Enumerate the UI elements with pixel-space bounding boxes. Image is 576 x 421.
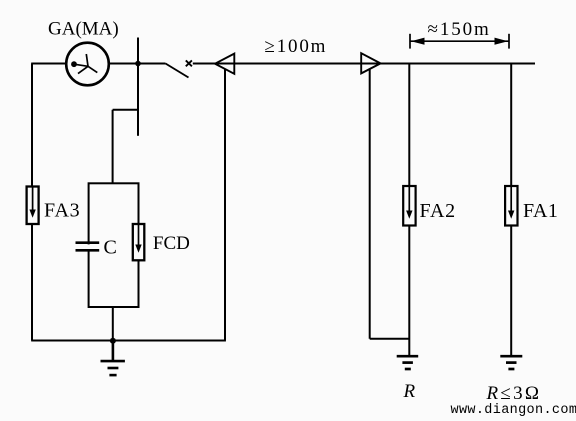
wire horizontal to FA2 ground node xyxy=(370,338,410,340)
svg-text:FCD: FCD xyxy=(153,233,190,254)
wire vertical drop under right arrow xyxy=(369,69,371,339)
svg-text:www.diangon.com: www.diangon.com xyxy=(451,403,576,418)
meter GA(MA) circle U1 xyxy=(66,43,109,86)
wire meter to junction xyxy=(109,63,138,65)
arrow marker left-pointing (feeder direction) xyxy=(215,54,234,74)
switch S1 fixed lead xyxy=(138,63,166,65)
svg-text:FA3: FA3 xyxy=(44,200,80,222)
wire left vertical bus xyxy=(31,64,33,341)
meter internal pointer lines xyxy=(74,54,97,74)
svg-text:C: C xyxy=(104,237,117,259)
switch S1 cross mark xyxy=(186,60,192,66)
arrester FA2 arrow xyxy=(406,186,412,219)
wire top-left horizontal to meter xyxy=(31,63,66,65)
wire FA1 branch lower xyxy=(510,226,512,357)
meter internal contact dot xyxy=(71,61,77,67)
arrester FA1 body xyxy=(505,186,517,226)
dimension right arrowhead xyxy=(495,38,509,45)
dimension ~150m line xyxy=(410,40,509,42)
dimension ~150m right tick xyxy=(508,34,510,49)
svg-text:FA2: FA2 xyxy=(420,200,456,222)
wire gap branch vertical to box xyxy=(112,110,114,184)
wire vertical drop under left arrow xyxy=(224,70,226,341)
capacitor C gap eraser xyxy=(86,244,92,249)
arrester FCD body xyxy=(133,224,145,260)
protector box outline xyxy=(89,183,139,307)
svg-text:GA(MA): GA(MA) xyxy=(48,19,119,40)
wire FA2 branch lower xyxy=(408,226,410,357)
switch S1 open blade xyxy=(166,64,189,78)
svg-text:FA1: FA1 xyxy=(523,200,558,222)
arrow marker right-pointing (feeder direction) xyxy=(361,53,380,73)
wire feeder main horizontal xyxy=(193,63,535,65)
wire gap branch horizontal xyxy=(113,109,139,111)
arrester FA3 arrow xyxy=(29,187,35,218)
wire FA2 branch upper xyxy=(408,64,410,187)
ground under FA1 xyxy=(500,356,522,369)
ground under FA2 xyxy=(397,356,419,369)
arrester FCD arrow xyxy=(135,224,141,253)
node junction A (dot) xyxy=(135,61,141,67)
wire FA1 branch upper xyxy=(510,64,512,187)
svg-text:R≤3Ω: R≤3Ω xyxy=(486,383,542,404)
arrester FA1 arrow xyxy=(508,186,514,219)
arrester FA2 body xyxy=(403,186,415,226)
arrester FA3 body xyxy=(27,187,39,225)
node ground junction (dot) xyxy=(110,338,116,344)
wire antenna stub above junction xyxy=(137,38,139,64)
svg-text:R: R xyxy=(403,381,416,402)
svg-text:≈150m: ≈150m xyxy=(428,19,491,40)
dimension left arrowhead xyxy=(411,38,425,45)
spark gap electrode (vertical below junction) xyxy=(137,64,139,136)
capacitor C plates xyxy=(76,243,100,251)
ground main (stub and bars) xyxy=(101,341,125,376)
dimension ~150m left tick xyxy=(409,34,411,49)
wire bottom ground bus xyxy=(31,340,226,342)
svg-text:≥100m: ≥100m xyxy=(265,36,328,57)
wire box bottom to ground bus xyxy=(112,307,114,341)
